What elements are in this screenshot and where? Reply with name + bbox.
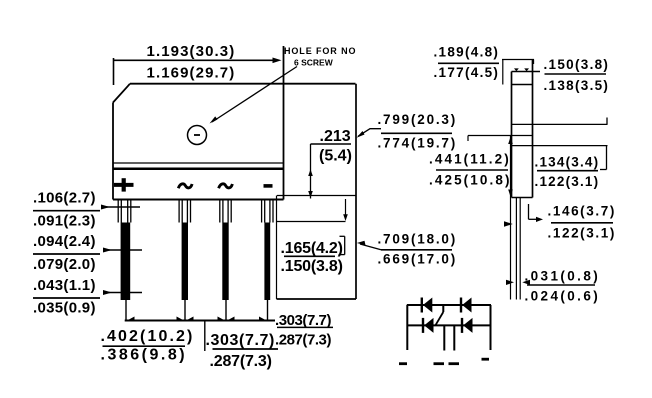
case bottom extension line — [277, 195, 356, 197]
svg-text:.024(0.6): .024(0.6) — [525, 289, 601, 304]
height dimension .441(11.2)/.425(10.8) — [429, 152, 512, 188]
middle spacing leader line — [204, 321, 206, 352]
ac terminal mark 1 — [178, 184, 192, 188]
svg-text:.122(3.1): .122(3.1) — [535, 174, 600, 189]
svg-text:.094(2.4): .094(2.4) — [33, 233, 96, 250]
leg 1 — [118, 200, 131, 301]
side vertical extension line — [508, 136, 513, 300]
svg-text:.774(19.7): .774(19.7) — [378, 136, 458, 151]
diode D2 — [461, 298, 472, 313]
bottom dimension text .402(10.2)/.386(9.8) — [101, 328, 195, 364]
svg-text:.402(10.2): .402(10.2) — [101, 328, 195, 345]
svg-text:.213: .213 — [320, 128, 351, 145]
lead shoulder dimension .165(4.2)/.150(3.8) — [277, 199, 348, 275]
rib top width dimension .189(4.8)/.177(4.5) — [434, 44, 535, 84]
svg-text:.134(3.4): .134(3.4) — [535, 154, 600, 169]
svg-text:.146(3.7): .146(3.7) — [548, 204, 616, 219]
front view body outline — [113, 46, 356, 200]
svg-text:6 SCREW: 6 SCREW — [294, 58, 334, 68]
leg 3 — [220, 200, 231, 301]
svg-text:.189(4.8): .189(4.8) — [434, 44, 500, 59]
terminal dash marks — [399, 362, 407, 365]
depth dimension .134(3.4)/.122(3.1) — [535, 146, 607, 189]
width dimension .150(3.8)/.138(3.5) — [544, 57, 610, 93]
diode D1 — [422, 298, 433, 313]
bridge schematic — [399, 298, 491, 366]
svg-text:.043(1.1): .043(1.1) — [33, 277, 96, 294]
mounting hole — [188, 126, 207, 145]
svg-text:.177(4.5): .177(4.5) — [434, 65, 500, 80]
junction wire — [442, 305, 444, 312]
svg-text:.150(3.8): .150(3.8) — [544, 57, 610, 72]
ac lead wire 2 — [453, 325, 455, 350]
side view lead — [516, 198, 520, 300]
svg-text:.669(17.0): .669(17.0) — [378, 252, 458, 267]
right lead wire — [490, 305, 492, 350]
left dimension texts — [33, 190, 100, 317]
svg-text:.287(7.3): .287(7.3) — [210, 353, 272, 370]
bottom dimension text middle .303(7.7)/.287(7.3) — [206, 332, 279, 370]
svg-text:.035(0.9): .035(0.9) — [33, 299, 96, 316]
svg-text:.303(7.7): .303(7.7) — [206, 332, 275, 349]
strip height dimension .213(5.4) — [308, 128, 352, 199]
svg-text:1.169(29.7): 1.169(29.7) — [147, 64, 236, 81]
svg-text:.091(2.3): .091(2.3) — [33, 212, 96, 229]
svg-text:.709(18.0): .709(18.0) — [378, 232, 458, 247]
minus terminal mark — [264, 184, 273, 188]
ac lead wire 1 — [443, 325, 445, 350]
outer right extension line of front view — [355, 84, 357, 299]
svg-text:.386(9.8): .386(9.8) — [101, 347, 188, 364]
diode D4 — [462, 318, 473, 333]
left lead wire — [406, 305, 408, 350]
overall width dimension 1.193(30.3) / 1.169(29.7) — [114, 43, 282, 81]
svg-text:.138(3.5): .138(3.5) — [544, 78, 610, 93]
svg-text:.122(3.1): .122(3.1) — [548, 226, 616, 241]
ac terminal mark 2 — [219, 184, 233, 188]
svg-text:HOLE FOR NO: HOLE FOR NO — [284, 46, 356, 56]
lead tip extension box — [277, 196, 357, 300]
lead thickness dimension .031(0.8)/.024(0.6) — [506, 268, 600, 303]
svg-text:.031(0.8): .031(0.8) — [525, 268, 601, 283]
hole callout label — [284, 46, 356, 68]
side view body — [468, 60, 608, 198]
svg-text:.799(20.3): .799(20.3) — [378, 112, 458, 127]
svg-text:.150(3.8): .150(3.8) — [281, 258, 343, 275]
plus terminal mark — [114, 178, 134, 191]
lead length dimension label .709(18.0)/.669(17.0) — [357, 232, 457, 267]
leg 4 — [262, 200, 273, 301]
terminal strip lines — [113, 163, 284, 200]
diode D3 — [423, 318, 434, 333]
lead offset dimension .146(3.7)/.122(3.1) — [504, 204, 616, 241]
svg-text:.441(11.2): .441(11.2) — [429, 152, 511, 167]
svg-text:1.193(30.3): 1.193(30.3) — [147, 43, 236, 60]
hole leader arrow — [210, 67, 298, 124]
lead pitch dimension line at bottom — [125, 300, 275, 321]
bottom dimension text right .303(7.7)/.287(7.3) — [275, 312, 333, 348]
top rail — [407, 304, 491, 306]
left lead dimension ticks on leg 1 — [101, 205, 142, 296]
svg-text:.425(10.8): .425(10.8) — [429, 173, 512, 188]
svg-text:.106(2.7): .106(2.7) — [33, 190, 96, 207]
svg-text:.165(4.2): .165(4.2) — [281, 240, 343, 257]
case height dimension label .799(20.3)/.774(19.7) — [357, 112, 458, 151]
bottom rail — [407, 324, 491, 326]
leg 2 — [179, 200, 190, 301]
svg-text:.079(2.0): .079(2.0) — [33, 256, 96, 273]
svg-text:(5.4): (5.4) — [319, 148, 352, 165]
svg-text:.287(7.3): .287(7.3) — [275, 331, 331, 348]
